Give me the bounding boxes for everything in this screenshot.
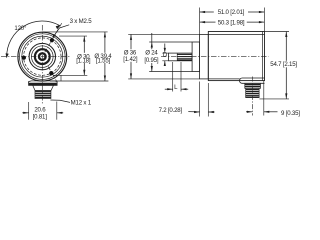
svg-text:9 [0.35]: 9 [0.35] <box>281 110 300 117</box>
svg-text:120°: 120° <box>14 25 27 32</box>
svg-text:Ø 24: Ø 24 <box>145 49 158 56</box>
svg-text:20.6: 20.6 <box>34 106 46 113</box>
svg-text:3 x M2.5: 3 x M2.5 <box>70 18 93 25</box>
svg-text:[1.42]: [1.42] <box>123 56 138 63</box>
svg-text:[1.18]: [1.18] <box>76 58 91 65</box>
svg-text:[0.95]: [0.95] <box>144 57 159 64</box>
svg-text:50.3 [1.98]: 50.3 [1.98] <box>218 19 245 26</box>
svg-text:54.7 [2.15]: 54.7 [2.15] <box>270 61 297 68</box>
svg-text:7.2 [0.28]: 7.2 [0.28] <box>159 107 183 114</box>
svg-text:51.0 [2.01]: 51.0 [2.01] <box>218 9 245 16</box>
svg-text:[0.81]: [0.81] <box>33 113 48 120</box>
svg-text:[1.55]: [1.55] <box>96 57 111 64</box>
svg-text:M12 x 1: M12 x 1 <box>71 99 92 106</box>
